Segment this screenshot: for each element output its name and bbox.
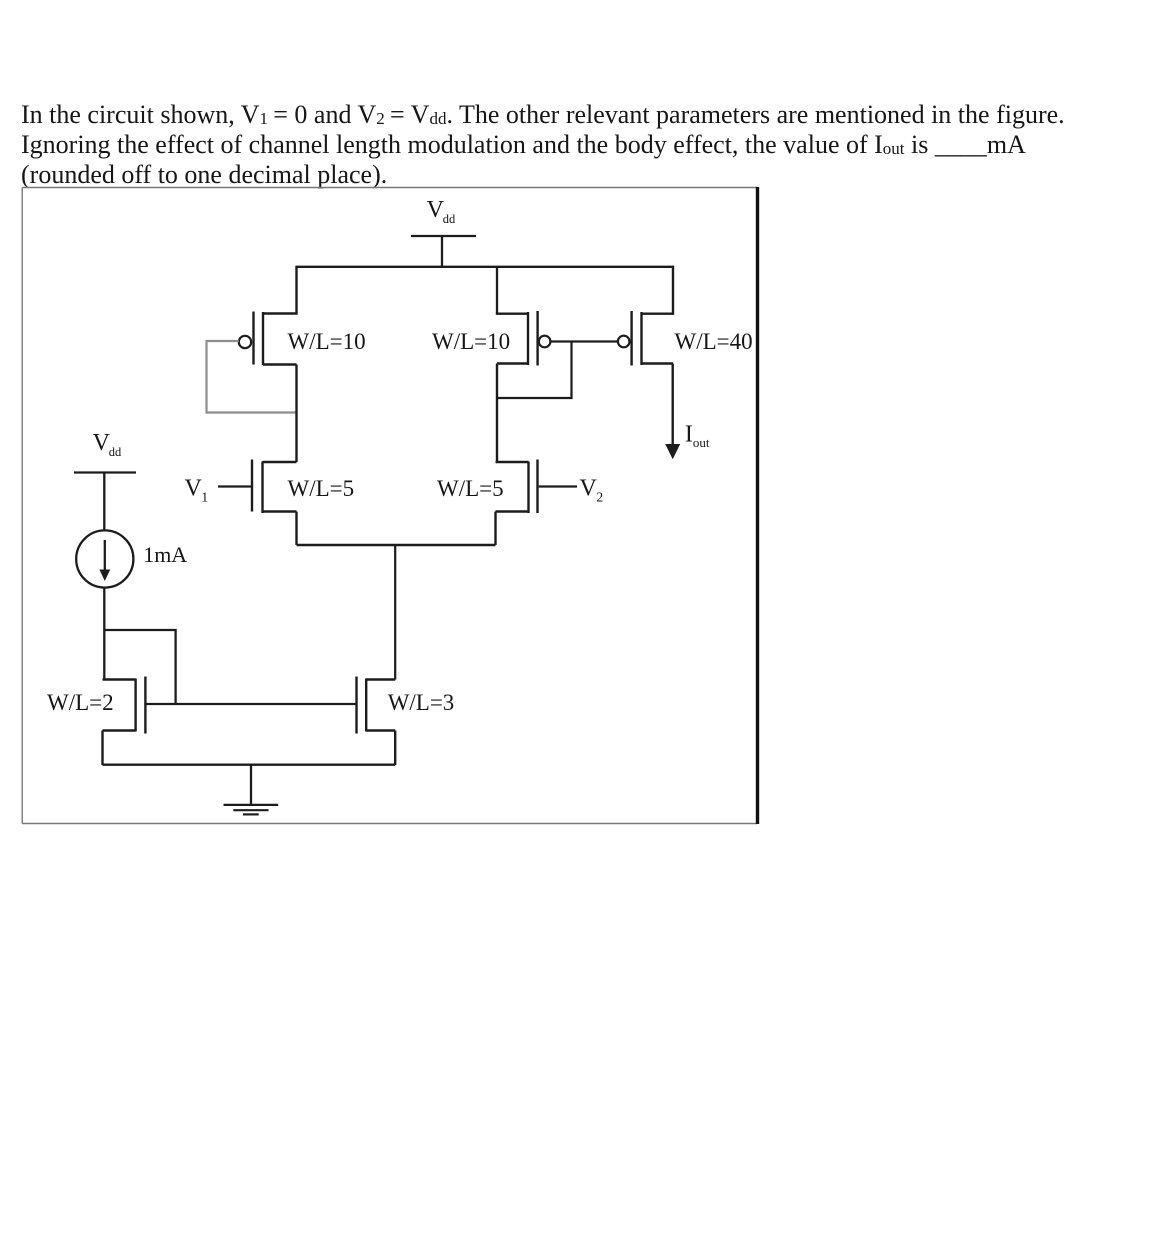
wire: current source to M6 drain <box>103 588 105 680</box>
wire: M1 drain to M4 drain <box>295 365 297 463</box>
svg-text:Vdd: Vdd <box>427 197 456 226</box>
wire: mirror gate wire M6-M7 <box>145 703 356 705</box>
wire: rail drop to M2 source <box>496 267 498 314</box>
transistor M1 (PMOS W/L=10 left) <box>239 266 297 365</box>
question text line 3 <box>21 160 387 190</box>
wire: M2 gate-drain connection <box>497 342 572 399</box>
svg-text:W/L=2: W/L=2 <box>47 690 114 715</box>
Vdd supply symbol (top) <box>411 236 476 267</box>
wire: M7 source to ground rail <box>394 731 396 766</box>
svg-text:W/L=40: W/L=40 <box>675 329 753 354</box>
wire: branch to mirror gates <box>104 630 175 704</box>
current source I1 (1mA) <box>76 530 133 587</box>
ground <box>224 805 279 815</box>
svg-text:V1: V1 <box>185 476 209 505</box>
svg-text:V2: V2 <box>580 476 604 505</box>
wire: ground rail <box>103 764 396 766</box>
svg-text:W/L=5: W/L=5 <box>437 476 504 501</box>
wire: Vdd top rail <box>297 266 675 268</box>
wire: M5 source to tail rail <box>494 512 496 546</box>
wire: M2 drain to M5 drain <box>496 364 498 463</box>
Iout arrowhead <box>665 444 680 459</box>
question text line 2 <box>21 130 1026 160</box>
transistor M6 (NMOS W/L=2) <box>103 677 146 734</box>
wire: differential pair source rail <box>297 544 496 546</box>
figure frame (decorative) <box>22 188 757 824</box>
wire: M6 source to ground rail <box>101 731 103 766</box>
transistor M5 (NMOS W/L=5 right) <box>496 460 578 514</box>
svg-text:W/L=10: W/L=10 <box>288 329 366 354</box>
svg-text:Iout: Iout <box>685 421 710 450</box>
wire: ground stem <box>250 765 252 804</box>
wire: M2 gate to M3 gate <box>551 340 618 342</box>
transistor M2 (PMOS W/L=10 right) <box>497 311 550 366</box>
svg-text:W/L=5: W/L=5 <box>288 476 355 501</box>
transistor M4 (NMOS W/L=5 left) <box>218 460 297 514</box>
transistor M3 (PMOS W/L=40) <box>618 266 673 366</box>
wire: tail down to M7 drain <box>394 545 396 680</box>
svg-text:W/L=10: W/L=10 <box>432 329 510 354</box>
Vdd supply symbol (left) <box>74 473 136 531</box>
transistor M7 (NMOS W/L=3) <box>357 677 396 734</box>
question text line 1 <box>21 100 1065 130</box>
wire: M3 drain / Iout branch <box>672 364 674 446</box>
svg-text:W/L=3: W/L=3 <box>388 690 455 715</box>
wire: M4 source to tail rail <box>295 512 297 546</box>
svg-text:Vdd: Vdd <box>93 430 122 459</box>
wire: M1 gate-drain feedback <box>207 341 297 413</box>
svg-text:1mA: 1mA <box>143 542 187 567</box>
